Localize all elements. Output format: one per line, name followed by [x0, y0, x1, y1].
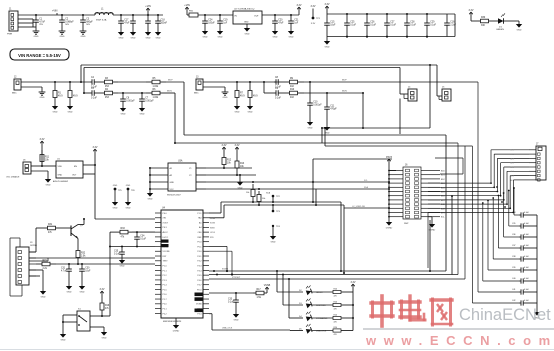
- svg-text:1.00k: 1.00k: [153, 97, 159, 99]
- svg-text:R31: R31: [48, 224, 53, 226]
- svg-text:10uF: 10uF: [330, 24, 336, 26]
- svg-text:0.001uF: 0.001uF: [145, 100, 154, 102]
- svg-text:0.1uF: 0.1uF: [524, 278, 530, 280]
- svg-text:1uF: 1uF: [294, 22, 299, 24]
- svg-text:USB-LOCK: USB-LOCK: [222, 328, 233, 330]
- svg-text:0.1uF: 0.1uF: [350, 24, 356, 26]
- svg-text:U3A: U3A: [178, 160, 183, 163]
- svg-text:470: 470: [334, 334, 337, 336]
- capacitor C7 filter: [139, 93, 154, 115]
- svg-text:GND: GND: [170, 182, 175, 184]
- capacitor C17: [118, 15, 130, 39]
- svg-text:0.1uF: 0.1uF: [524, 223, 530, 225]
- wire cap bank rails: [327, 13, 455, 38]
- capacitor C27: [384, 14, 396, 38]
- capacitor C25: [344, 14, 356, 38]
- capacitor C6 filter: [120, 93, 135, 115]
- svg-text:AD6: AD6: [510, 175, 514, 178]
- svg-text:GND: GND: [68, 111, 73, 113]
- svg-text:GND: GND: [80, 291, 85, 293]
- svg-text:2.2uF: 2.2uF: [450, 24, 456, 26]
- svg-text:VDD: VDD: [58, 166, 63, 168]
- svg-text:GND: GND: [244, 22, 249, 24]
- oscillator U1: [42, 150, 83, 183]
- wire osc output to MCU: [83, 165, 155, 219]
- net label LX USB2-DB: [344, 206, 390, 209]
- capacitor C24: [202, 15, 216, 38]
- svg-text:R24: R24: [334, 301, 337, 303]
- wire bus ch1 plus long: [184, 82, 446, 135]
- svg-text:GND: GND: [234, 319, 239, 321]
- wire post-inductor: [113, 14, 163, 16]
- svg-text:BD2: BD2: [441, 179, 445, 181]
- svg-text:C30: C30: [85, 268, 90, 270]
- svg-text:GND: GND: [131, 37, 136, 39]
- wire RST loop: [109, 232, 155, 316]
- wire node split ch1: [84, 92, 90, 94]
- svg-text:GND: GND: [120, 265, 125, 267]
- svg-text:UCB0: UCB0: [210, 218, 215, 220]
- svg-text:C19: C19: [223, 20, 228, 22]
- svg-text:3.3V: 3.3V: [351, 281, 356, 284]
- svg-text:GND: GND: [148, 198, 153, 200]
- svg-text:49.9: 49.9: [253, 95, 258, 97]
- svg-text:49.9: 49.9: [73, 95, 78, 97]
- power flag +VIN regulator: [184, 4, 190, 15]
- svg-text:0.1uF: 0.1uF: [91, 98, 97, 100]
- wire stub rect right: [435, 158, 463, 174]
- resistor R22 pullup SCL: [246, 184, 255, 202]
- svg-text:BNC: BNC: [194, 93, 199, 95]
- svg-text:49.9: 49.9: [58, 95, 63, 97]
- jumper J5: [437, 87, 451, 102]
- ground J2 shield: [21, 87, 45, 99]
- svg-text:GND: GND: [140, 113, 145, 115]
- svg-text:0.001uF: 0.001uF: [313, 104, 322, 106]
- svg-text:GND: GND: [156, 37, 161, 39]
- wire LED drives: [276, 270, 303, 331]
- wire J2 signal: [21, 81, 90, 83]
- svg-text:GND: GND: [325, 46, 330, 48]
- svg-text:0.1uF: 0.1uF: [524, 212, 530, 214]
- svg-text:C21: C21: [294, 20, 299, 22]
- connector J2 BNC input 1: [12, 77, 21, 95]
- svg-text:C26: C26: [370, 22, 375, 24]
- svg-text:AVCC: AVCC: [163, 231, 169, 234]
- svg-text:GND: GND: [289, 36, 294, 38]
- svg-text:GND: GND: [271, 241, 276, 243]
- resistor R33 RST pullup: [110, 228, 155, 238]
- switch S1 reset: [62, 309, 104, 335]
- capacitor C35 RST filter: [114, 247, 125, 268]
- svg-text:470pF: 470pF: [330, 108, 337, 110]
- svg-text:47uF: 47uF: [278, 22, 284, 24]
- capacitor C31: [61, 264, 72, 293]
- svg-text:0.1uF: 0.1uF: [524, 300, 530, 302]
- inductor L1: [95, 9, 113, 22]
- svg-text:BD1: BD1: [441, 175, 445, 177]
- svg-text:C39: C39: [512, 267, 515, 269]
- capacitor C30: [79, 264, 91, 293]
- capacitor C34 bypass: [512, 212, 537, 218]
- resistor R23 pullup SDA: [257, 191, 265, 205]
- test point TP2 SDA: [266, 192, 281, 203]
- connector J6 header: [396, 165, 428, 226]
- capacitor C23: [155, 15, 168, 39]
- svg-text:R15: R15: [43, 260, 48, 262]
- svg-text:VCC: VCC: [170, 189, 175, 191]
- resistor R9: [283, 78, 304, 88]
- jumper J8 osc disable: [6, 160, 48, 180]
- svg-text:DGND: DGND: [429, 229, 436, 231]
- svg-text:AD1: AD1: [510, 153, 514, 156]
- wire bus ch2 lower b: [324, 127, 472, 146]
- svg-text:3.3V: 3.3V: [311, 5, 316, 8]
- LED D1 green: [496, 13, 519, 31]
- wire header right stubs lower: [428, 200, 446, 219]
- LED D5 USB-LOCK: [299, 324, 353, 336]
- svg-text:GND: GND: [245, 33, 250, 35]
- IC U4 MCU MSP430: [155, 208, 216, 324]
- wire I2C bus pair: [209, 201, 344, 218]
- svg-text:0.1uF: 0.1uF: [524, 289, 530, 291]
- svg-text:GND: GND: [308, 127, 313, 129]
- svg-text:R17: R17: [257, 289, 262, 291]
- wire ch1 outputs to bus: [166, 80, 184, 94]
- svg-text:0.1uF: 0.1uF: [370, 24, 376, 26]
- svg-text:DGND: DGND: [173, 330, 180, 332]
- svg-text:IN2P: IN2P: [342, 80, 347, 82]
- svg-text:50V: 50V: [65, 24, 69, 26]
- svg-text:3.3V: 3.3V: [235, 144, 240, 147]
- regulator U2 TL1963A: [233, 8, 262, 36]
- wire loop top outer: [80, 64, 437, 96]
- ground U3: [147, 193, 153, 200]
- wire reset to MCU: [101, 315, 110, 317]
- wire bus ch1 minus long: [174, 93, 176, 143]
- svg-text:GND: GND: [34, 36, 39, 38]
- wire USB lock: [209, 314, 290, 330]
- capacitor C16: [444, 14, 456, 37]
- power flag 3.3V cap bank: [325, 3, 330, 14]
- wire bus TDI bottom: [209, 143, 458, 276]
- wire node split ch2: [264, 82, 274, 93]
- wire bridge vertical: [340, 202, 345, 274]
- capacitor C42 bypass: [512, 300, 537, 306]
- svg-text:UCLK: UCLK: [210, 232, 216, 234]
- svg-text:SDA: SDA: [266, 192, 271, 195]
- svg-text:SOMI: SOMI: [210, 223, 215, 225]
- svg-text:XOUT: XOUT: [163, 222, 169, 224]
- svg-text:GND: GND: [113, 207, 118, 209]
- ground LED: [516, 21, 522, 31]
- svg-text:0.1uF: 0.1uF: [430, 24, 436, 26]
- svg-text:C25: C25: [350, 22, 355, 24]
- svg-text:R16: R16: [105, 305, 110, 307]
- svg-text:R33: R33: [121, 228, 126, 230]
- jumper J4: [400, 87, 417, 102]
- capacitor C9 ac couple: [274, 88, 283, 99]
- connector J3 BNC input 2: [194, 77, 203, 95]
- svg-text:GND: GND: [218, 36, 223, 38]
- svg-text:C29: C29: [430, 22, 435, 24]
- svg-text:R12: R12: [227, 160, 232, 162]
- ground header right: [428, 217, 436, 232]
- svg-text:OUT: OUT: [254, 16, 259, 18]
- svg-text:OUT: OUT: [72, 175, 77, 177]
- svg-text:100uF: 100uF: [208, 22, 215, 24]
- capacitor C35 bypass: [512, 223, 537, 229]
- svg-text:TEST: TEST: [163, 261, 169, 263]
- resistor R17 PUR: [253, 289, 267, 299]
- resistor R12 pullup: [222, 154, 232, 169]
- wire +VIN rail: [18, 10, 95, 28]
- svg-text:C38: C38: [512, 256, 515, 258]
- wire Q1 collector: [78, 218, 85, 225]
- svg-text:39uH 3.2A: 39uH 3.2A: [96, 19, 107, 22]
- capacitor C39 bypass: [512, 267, 537, 273]
- svg-text:0.1uF: 0.1uF: [410, 24, 416, 26]
- svg-text:SN74LVC2G07: SN74LVC2G07: [167, 195, 182, 197]
- svg-text:GND: GND: [203, 36, 208, 38]
- test point TP1 3.3V: [311, 5, 321, 25]
- svg-text:GND: GND: [273, 36, 278, 38]
- svg-text:C34: C34: [140, 236, 145, 238]
- ground jumper: [45, 179, 51, 186]
- capacitor C26: [364, 14, 376, 38]
- svg-text:0.1uF: 0.1uF: [524, 256, 530, 258]
- svg-text:AD5: AD5: [510, 170, 514, 173]
- svg-text:R10: R10: [290, 89, 295, 91]
- svg-text:LX_USB2-DB: LX_USB2-DB: [352, 206, 365, 208]
- capacitor C22: [130, 15, 136, 39]
- resistor R7 termination: [234, 82, 245, 113]
- resistor R16 reset pullup: [100, 297, 110, 316]
- svg-text:C31: C31: [61, 268, 66, 270]
- test point TP5 GND post: [112, 185, 123, 209]
- svg-text:R24: R24: [334, 327, 337, 329]
- ground header left: [386, 222, 393, 229]
- net label IN2P IN2N: [342, 80, 347, 93]
- svg-text:GND: GND: [102, 337, 107, 339]
- IC U3 level translator: [149, 160, 206, 197]
- svg-text:R13: R13: [240, 163, 245, 165]
- svg-text:GND: GND: [126, 207, 131, 209]
- resistor R31 base: [29, 224, 70, 252]
- power flag 3.3V pullup a: [222, 144, 227, 154]
- callout VIN RANGE: [10, 49, 69, 60]
- test point TP4 GND: [270, 225, 281, 244]
- power flag 3.3V osc: [40, 138, 45, 150]
- ferrite bead FB1: [187, 11, 233, 18]
- connector J1 power input: [7, 9, 18, 36]
- power flag 3.3V LED: [469, 9, 474, 21]
- svg-text:1uF: 1uF: [223, 22, 228, 24]
- resistor R13 pullup: [235, 154, 245, 176]
- ground switch left: [60, 334, 66, 341]
- svg-text:VIN RANGE = 5.5-15V: VIN RANGE = 5.5-15V: [18, 53, 61, 58]
- svg-text:GND: GND: [121, 113, 126, 115]
- svg-text:GND: GND: [40, 97, 45, 99]
- resistor R15 series: [36, 260, 155, 270]
- ground stub U3 area: [237, 174, 243, 189]
- wire ch1 minus: [118, 92, 146, 94]
- svg-text:470: 470: [334, 296, 337, 298]
- capacitor C8 ac couple: [274, 77, 283, 88]
- net tag XT2 bus taps: [209, 246, 241, 279]
- wire header feed: [313, 158, 392, 160]
- wire header left bus: [388, 166, 396, 222]
- svg-text:3.3V: 3.3V: [325, 3, 330, 6]
- svg-text:GND: GND: [119, 37, 124, 39]
- svg-text:0.1uF: 0.1uF: [275, 98, 281, 100]
- capacitor C21: [288, 15, 299, 38]
- svg-text:0.1uF: 0.1uF: [228, 301, 234, 303]
- svg-text:100uF: 100uF: [161, 22, 168, 24]
- svg-text:25V: 25V: [39, 24, 43, 26]
- test point TP6 GND post: [125, 185, 136, 209]
- wire bus third bottom: [209, 146, 465, 279]
- capacitor C29: [424, 14, 436, 38]
- svg-text:47uF: 47uF: [124, 22, 130, 24]
- svg-text:GND: GND: [60, 36, 65, 38]
- svg-text:BNC: BNC: [12, 93, 17, 95]
- svg-text:MSP430F5529IPN: MSP430F5529IPN: [163, 321, 182, 323]
- connector J7: [529, 144, 546, 182]
- svg-text:GND: GND: [113, 185, 118, 187]
- wire right vertical drop b: [451, 195, 453, 275]
- LED D4 STREAM: [299, 311, 353, 323]
- wire jumper feed down: [399, 99, 401, 135]
- svg-text:GND: GND: [41, 296, 46, 298]
- capacitor C33: [228, 293, 239, 321]
- svg-text:3.3V: 3.3V: [222, 144, 227, 147]
- svg-text:GND: GND: [58, 175, 63, 177]
- capacitor C11 filter: [324, 93, 338, 134]
- wire JTAG TMS: [29, 258, 48, 261]
- svg-text:3.3V: 3.3V: [311, 23, 316, 25]
- ground JTAG: [40, 291, 46, 298]
- ground ladder: [534, 308, 540, 319]
- svg-text:470: 470: [334, 309, 337, 311]
- svg-text:SIMO: SIMO: [210, 227, 215, 229]
- svg-text:GND: GND: [146, 37, 151, 39]
- power flag 3.3V reset: [100, 288, 105, 297]
- svg-text:GND: GND: [67, 291, 72, 293]
- svg-text:GND: GND: [223, 97, 228, 99]
- svg-text:R32: R32: [81, 253, 86, 255]
- svg-text:C20: C20: [278, 20, 283, 22]
- svg-text:10uF: 10uF: [85, 270, 91, 272]
- svg-text:+VIN: +VIN: [184, 4, 190, 7]
- power flag 3.3V pullup b: [235, 144, 240, 154]
- svg-text:0.1uF: 0.1uF: [390, 24, 396, 26]
- ground switch right: [101, 332, 107, 339]
- svg-text:C24: C24: [208, 20, 213, 22]
- capacitor C19: [217, 15, 228, 38]
- capacitor C1: [33, 15, 46, 38]
- svg-text:3.3V: 3.3V: [297, 4, 302, 7]
- svg-text:SCL: SCL: [364, 180, 368, 182]
- svg-text:0.001uF: 0.001uF: [126, 100, 135, 102]
- capacitor C38 bypass: [512, 256, 537, 262]
- capacitor C4 ac couple: [90, 77, 99, 88]
- wire ch2 minus: [304, 92, 363, 94]
- svg-text:3.3V: 3.3V: [40, 138, 45, 141]
- svg-text:GND: GND: [126, 185, 131, 187]
- svg-text:DNP: DNP: [404, 223, 409, 225]
- svg-text:www.ECCN.com: www.ECCN.com: [365, 333, 554, 348]
- ground cap bank: [324, 37, 330, 49]
- svg-text:AD2: AD2: [510, 157, 514, 160]
- ground MCU: [173, 318, 180, 332]
- svg-text:VCORE: VCORE: [163, 251, 171, 253]
- svg-text:+VIN: +VIN: [52, 10, 58, 13]
- svg-text:DGND: DGND: [386, 227, 393, 229]
- svg-text:4.7uF: 4.7uF: [61, 270, 67, 272]
- svg-text:P3V3: P3V3: [386, 156, 393, 159]
- svg-text:AD0: AD0: [510, 149, 514, 152]
- wire JTAG low pins: [29, 270, 43, 291]
- resistor R30: [471, 17, 498, 27]
- svg-text:IN1P: IN1P: [168, 80, 173, 82]
- svg-text:AD3: AD3: [510, 162, 514, 165]
- svg-text:GND: GND: [61, 339, 66, 341]
- svg-text:U2 TL1963A-33DCQ: U2 TL1963A-33DCQ: [234, 8, 255, 11]
- svg-text:470: 470: [334, 322, 337, 324]
- power flag 3.3V osc out: [93, 146, 98, 165]
- wire braid to J7: [428, 149, 529, 214]
- capacitor C5 ac couple: [90, 88, 99, 99]
- svg-text:C28: C28: [410, 22, 415, 24]
- svg-text:C42: C42: [512, 300, 515, 302]
- capacitor C20: [272, 15, 284, 38]
- wire bus ch2 lower a: [174, 127, 458, 144]
- resistor R11 osc enable: [40, 150, 50, 166]
- power flag +VIN: [145, 5, 151, 15]
- resistor R10: [283, 89, 304, 99]
- svg-text:3.3V: 3.3V: [469, 9, 474, 12]
- LED D3 SUSPEND: [299, 298, 353, 310]
- capacitor C18: [145, 15, 151, 39]
- svg-text:R24: R24: [334, 288, 337, 290]
- svg-text:0.1uF: 0.1uF: [524, 234, 530, 236]
- capacitor C2: [59, 15, 75, 38]
- svg-text:VUSB: VUSB: [196, 304, 202, 306]
- capacitor C10 filter: [307, 82, 322, 129]
- svg-text:3.3V: 3.3V: [100, 288, 105, 291]
- capacitor C3: [80, 15, 94, 38]
- svg-text:EN: EN: [74, 166, 77, 168]
- svg-text:C33: C33: [228, 299, 233, 301]
- svg-text:IN2N: IN2N: [342, 91, 347, 93]
- svg-text:ChinaECNet: ChinaECNet: [459, 306, 551, 324]
- capacitor C40 bypass: [512, 278, 537, 284]
- svg-text:BCL: BCL: [441, 217, 445, 219]
- wire LED rail: [352, 292, 354, 331]
- svg-text:0.1uF: 0.1uF: [140, 238, 146, 240]
- wire PUR: [209, 292, 253, 294]
- LED D2 HELLO: [299, 285, 353, 297]
- resistor R1 termination: [52, 82, 63, 113]
- svg-text:C16: C16: [450, 22, 455, 24]
- capacitor C37 bypass: [512, 245, 537, 251]
- test point TP3 SCL: [272, 205, 281, 213]
- wire U3 outputs: [206, 168, 390, 190]
- wire regulator output: [262, 14, 299, 16]
- power flag 3.3V output: [297, 4, 302, 15]
- svg-text:C40: C40: [512, 278, 515, 280]
